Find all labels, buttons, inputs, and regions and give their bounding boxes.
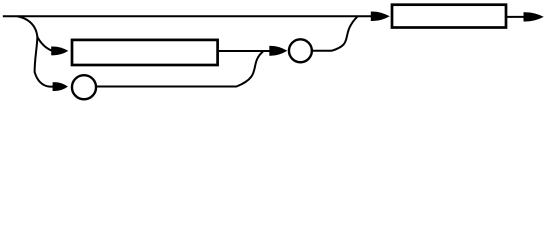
wire circle 1 exit with S-curve up to merge: [97, 51, 264, 87]
terminal circle 1: [72, 75, 96, 99]
wire main top line: [3, 15, 371, 17]
arrowhead into box 1: [51, 46, 68, 55]
wire bend into box 1: [37, 37, 52, 51]
arrowhead into circle 1: [53, 82, 68, 91]
arrowhead into circle 2: [269, 46, 287, 56]
wire vertical branch line: [35, 37, 38, 73]
wire bend into circle 1: [35, 72, 53, 87]
terminal circle 2: [289, 39, 312, 62]
arrowhead into box 2: [371, 12, 390, 21]
box 2: [392, 5, 506, 28]
wire box 2 exit line: [506, 16, 527, 18]
wire branch split curve down: [18, 16, 37, 37]
wire circle 2 exit with S-curve up to main line: [312, 16, 357, 50]
wire box 1 exit line: [219, 50, 271, 52]
box 1: [72, 40, 218, 65]
arrowhead final output: [524, 12, 544, 21]
